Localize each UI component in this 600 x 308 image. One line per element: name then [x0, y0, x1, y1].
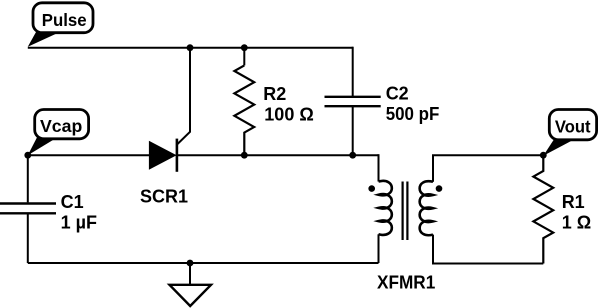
wire Vcap net anode segment: [28, 154, 151, 156]
resistor R1: [533, 155, 553, 263]
node junction dot Vcap: [24, 152, 31, 159]
polarity dot primary: [368, 185, 375, 192]
transformer core: [403, 182, 408, 241]
svg-text:Vcap: Vcap: [40, 116, 82, 136]
svg-text:1 µF: 1 µF: [61, 212, 97, 232]
node junction dot C2 bottom: [349, 152, 356, 159]
wire ground net bottom horizontal: [28, 262, 379, 264]
node junction dot Vout: [540, 152, 547, 159]
svg-text:SCR1: SCR1: [140, 186, 188, 206]
svg-text:XFMR1: XFMR1: [377, 273, 435, 293]
node junction dot on Pulse net at R2: [241, 44, 248, 51]
svg-text:C2: C2: [386, 84, 409, 104]
svg-text:Vout: Vout: [555, 116, 591, 136]
resistor R2: [234, 65, 254, 155]
svg-text:1 Ω: 1 Ω: [562, 212, 591, 232]
flag Vcap: [28, 110, 89, 156]
transistor SCR1: [149, 48, 190, 172]
wire cathode to transformer segment: [176, 154, 379, 156]
polarity dot secondary: [436, 185, 443, 192]
transformer XFMR1 primary winding: [368, 154, 391, 263]
wire secondary top: [432, 154, 543, 156]
capacitor C1: [0, 155, 56, 263]
node junction dot on Pulse net at gate dropper: [187, 44, 194, 51]
node junction dot ground: [187, 260, 194, 267]
wire secondary bottom: [432, 263, 543, 265]
capacitor C2: [325, 97, 381, 155]
wire C2 top dropper: [352, 47, 354, 97]
ground: [170, 263, 212, 306]
flag Vout: [543, 110, 596, 156]
svg-text:100 Ω: 100 Ω: [264, 105, 313, 125]
wire R2 top dropper: [243, 48, 245, 66]
transformer XFMR1 secondary winding: [420, 155, 443, 263]
svg-text:R2: R2: [263, 84, 286, 104]
flag Pulse: [28, 3, 93, 47]
wire Pulse net top horizontal: [28, 47, 353, 49]
svg-text:R1: R1: [562, 192, 585, 212]
svg-text:500 pF: 500 pF: [386, 104, 440, 124]
node junction dot R2 bottom: [241, 152, 248, 159]
svg-text:Pulse: Pulse: [42, 10, 87, 30]
svg-text:C1: C1: [61, 192, 84, 212]
